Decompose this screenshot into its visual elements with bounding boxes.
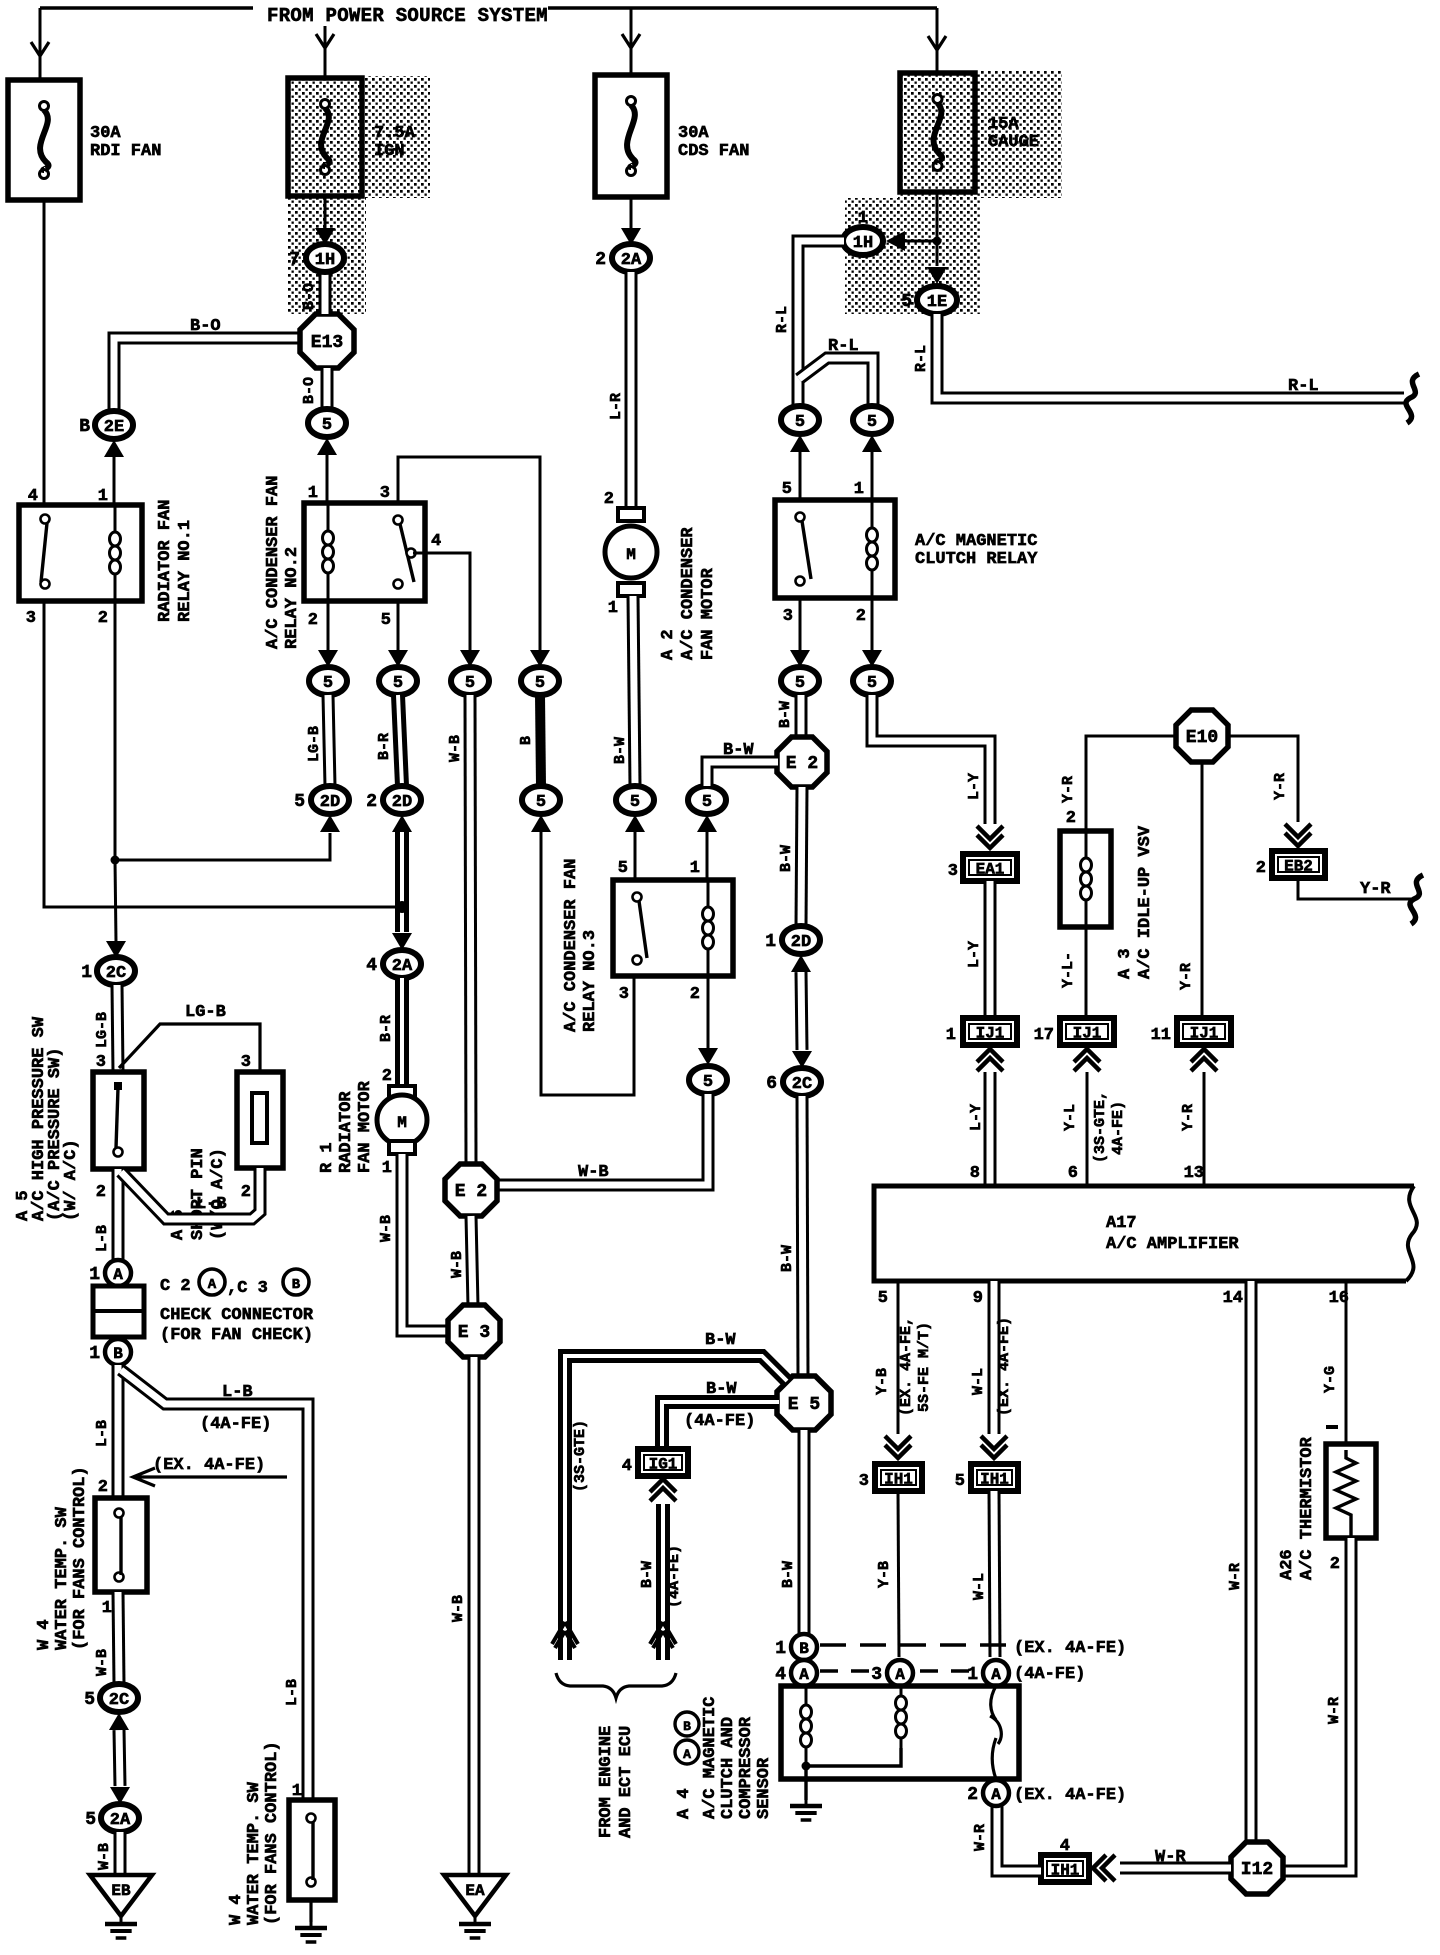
svg-text:LG-B: LG-B <box>185 1003 226 1022</box>
fuse 15A GAUGE <box>900 73 975 192</box>
svg-text:(4A-FE): (4A-FE) <box>1014 1665 1085 1684</box>
svg-text:B-R: B-R <box>376 733 393 760</box>
circled A check label <box>199 1269 225 1295</box>
svg-text:2E: 2E <box>104 418 124 437</box>
svg-text:(FOR FANS CONTROL): (FOR FANS CONTROL) <box>71 1466 90 1650</box>
svg-text:(3S-GTE): (3S-GTE) <box>572 1420 589 1492</box>
svg-text:B-W: B-W <box>706 1380 737 1399</box>
coil in relay2 <box>323 503 334 601</box>
arrow into 2E <box>104 440 124 457</box>
relay box A/C condenser fan relay no.3 <box>613 880 733 976</box>
svg-text:W 4: W 4 <box>227 1894 246 1925</box>
svg-text:E 5: E 5 <box>788 1395 820 1415</box>
svg-text:1: 1 <box>382 1159 392 1178</box>
junction connector I12 <box>1231 1842 1283 1894</box>
svg-text:5: 5 <box>294 792 305 812</box>
svg-text:2D: 2D <box>320 793 340 812</box>
ground symbol EB <box>105 1916 137 1938</box>
wire LG-B <box>328 695 330 786</box>
junction B-R and relay1 feed <box>396 901 408 913</box>
arrow into 1H <box>315 228 335 245</box>
svg-text:(4A-FE): (4A-FE) <box>684 1412 755 1431</box>
junction fuse4 tap to 1H <box>933 237 942 246</box>
pivot contact relay2 pin4 <box>407 549 416 558</box>
box A4 compressor clutch and sensor <box>781 1686 1019 1779</box>
wire relay2 pin4 to oval <box>413 553 470 650</box>
arrow into oval pin4 path <box>460 650 480 667</box>
connector 2E <box>79 411 133 439</box>
connector 2D switch side <box>366 786 421 814</box>
arrow into oval above relay3 pin1 <box>697 815 717 832</box>
connector 5 clutch relay pin1 top <box>853 406 891 434</box>
svg-text:E 3: E 3 <box>458 1323 490 1343</box>
svg-text:RELAY NO.3: RELAY NO.3 <box>581 930 600 1032</box>
svg-text:(4A-FE): (4A-FE) <box>200 1415 271 1434</box>
break symbol Y-R wire end <box>1410 875 1423 924</box>
svg-text:W-B: W-B <box>578 1163 609 1182</box>
arrow into oval below pin2 <box>862 650 882 667</box>
junction connector E5 <box>777 1376 831 1430</box>
svg-text:4: 4 <box>622 1457 632 1476</box>
wire relay3 pin2 down <box>707 976 710 1048</box>
svg-text:R-L: R-L <box>913 345 930 372</box>
svg-text:CLUTCH AND: CLUTCH AND <box>719 1717 738 1819</box>
svg-text:5: 5 <box>381 611 391 630</box>
svg-text:IGN: IGN <box>374 142 405 161</box>
wire loop oval to relay3 pin3 <box>541 832 634 1095</box>
switch box W4 water temp sw no1 <box>95 1498 147 1592</box>
terminal A check connector <box>89 1260 131 1286</box>
wire L-B A6 branch <box>121 1168 260 1219</box>
svg-text:AND ECT ECU: AND ECT ECU <box>617 1726 636 1838</box>
svg-text:B-W: B-W <box>780 1561 797 1588</box>
svg-text:A/C MAGNETIC: A/C MAGNETIC <box>701 1697 720 1819</box>
svg-text:2: 2 <box>604 490 614 509</box>
switch in clutch relay <box>796 513 812 586</box>
arrow into oval pin1 <box>862 435 882 452</box>
relay box A/C magnetic clutch relay <box>775 500 895 598</box>
svg-text:COMPRESSOR: COMPRESSOR <box>737 1716 756 1819</box>
arrow chevron into IH1 pin3 <box>885 1436 911 1458</box>
wire W-B W4 to 2C <box>118 1592 119 1684</box>
svg-text:5: 5 <box>867 413 877 432</box>
svg-text:2C: 2C <box>109 1691 129 1710</box>
wire ig1 tail <box>656 1612 670 1660</box>
arrow into 2A <box>621 228 641 245</box>
wire W-B relay2 pin4 column <box>470 695 471 1164</box>
svg-text:1: 1 <box>690 859 700 878</box>
connector IH1 pin5 <box>955 1464 1018 1491</box>
svg-text:5: 5 <box>630 793 640 812</box>
svg-text:1: 1 <box>967 1665 978 1685</box>
svg-text:(EX. 4A-FE,: (EX. 4A-FE, <box>898 1317 915 1416</box>
wire EB2 to break <box>1298 878 1412 899</box>
wire 2A to EB <box>114 1832 127 1874</box>
svg-text:W-L: W-L <box>970 1368 987 1395</box>
wire 2C to 2A bottom <box>119 1730 120 1786</box>
svg-text:30A: 30A <box>90 124 121 143</box>
junction connector E10 <box>1176 710 1228 762</box>
svg-text:W-R: W-R <box>1155 1848 1186 1867</box>
svg-text:B-W: B-W <box>777 701 794 728</box>
arrow feed fuse4 <box>928 36 946 50</box>
svg-text:L-B: L-B <box>94 1420 111 1447</box>
svg-text:1: 1 <box>608 599 618 618</box>
svg-text:1: 1 <box>102 1599 112 1618</box>
svg-text:W-B: W-B <box>450 1595 467 1622</box>
svg-text:L-B: L-B <box>94 1225 111 1252</box>
svg-text:R-L: R-L <box>1288 377 1319 396</box>
relay box radiator fan relay no.1 <box>19 505 142 601</box>
svg-text:W-L: W-L <box>971 1573 988 1600</box>
svg-text:A/C CONDENSER FAN: A/C CONDENSER FAN <box>264 476 283 649</box>
svg-text:W-R: W-R <box>1227 1563 1244 1590</box>
svg-text:IH1: IH1 <box>1051 1862 1080 1880</box>
terminal B compressor <box>775 1634 817 1660</box>
svg-text:5: 5 <box>618 859 628 878</box>
svg-text:R-L: R-L <box>774 306 791 333</box>
wire L-B circle B down <box>112 1365 125 1498</box>
wire fuse2 to 1H <box>324 196 327 228</box>
svg-text:A/C AMPLIFIER: A/C AMPLIFIER <box>1106 1235 1239 1254</box>
svg-text:8: 8 <box>970 1164 980 1183</box>
minus sign thermistor <box>1326 1425 1338 1429</box>
arrow chevron into EB2 <box>1285 824 1311 846</box>
svg-text:2A: 2A <box>621 251 642 270</box>
svg-text:2C: 2C <box>106 964 126 983</box>
svg-text:B-W: B-W <box>612 737 629 764</box>
svg-text:FAN MOTOR: FAN MOTOR <box>699 567 718 660</box>
svg-text:A: A <box>991 1666 1001 1684</box>
wire E10 left to A3 <box>1086 736 1176 831</box>
svg-text:R 1: R 1 <box>318 1142 337 1173</box>
arrow into oval below relay3 pin2 <box>698 1048 718 1065</box>
coil in radiator fan relay no.1 <box>110 505 121 601</box>
wire clutch relay pin3 down <box>799 598 802 650</box>
svg-text:30A: 30A <box>678 124 709 143</box>
wire B-W A2 motor to oval <box>633 596 635 786</box>
svg-text:A: A <box>683 1747 691 1762</box>
wire relay2 pin3 top loop <box>398 457 540 650</box>
svg-text:M: M <box>397 1114 407 1132</box>
wire B-R 2A to motor <box>395 978 409 1086</box>
wire R-L 1H to clutch relay pin5 <box>798 241 844 406</box>
arrow end 3S-GTE wire <box>552 1622 578 1648</box>
wire power source rail right <box>548 6 937 9</box>
svg-text:L-B: L-B <box>284 1679 301 1706</box>
junction relay1 coil node <box>111 856 120 865</box>
junction compressor ground node <box>802 1762 811 1771</box>
wire W-R thermistor to I12 <box>1283 1538 1351 1871</box>
svg-text:B-W: B-W <box>705 1331 736 1350</box>
dashed line EX 4A-FE from B <box>820 1643 1008 1646</box>
coil in relay3 <box>703 880 714 976</box>
wire B-W clutch pin3 oval to E2r <box>795 695 808 737</box>
svg-text:EA1: EA1 <box>976 861 1005 879</box>
svg-text:FAN MOTOR: FAN MOTOR <box>356 1080 375 1173</box>
svg-text:Y-L: Y-L <box>1062 1104 1079 1131</box>
arrow chevron below IG1 <box>650 1479 676 1501</box>
svg-text:E 2: E 2 <box>786 754 818 774</box>
arrow chevron below IJ1 pin11 <box>1191 1049 1217 1071</box>
svg-text:Y-R: Y-R <box>1360 880 1391 899</box>
svg-text:A: A <box>113 1266 123 1284</box>
wire L-Y IJ1 to A17 pin8 <box>984 1072 997 1186</box>
connector IJ1 pin17 <box>1034 1018 1114 1045</box>
stipple shading around 7.5A IGN fuse <box>286 76 430 198</box>
svg-text:A: A <box>208 1277 217 1293</box>
svg-text:A26: A26 <box>1278 1549 1297 1580</box>
wire IJ1 pin11 to A17 pin13 <box>1203 1072 1206 1186</box>
svg-text:1H: 1H <box>853 234 873 253</box>
terminal A compressor pin1 <box>967 1660 1009 1686</box>
svg-text:Y-L-: Y-L- <box>1060 952 1077 988</box>
junction connector E2 right <box>777 737 827 787</box>
svg-text:A/C IDLE-UP VSV: A/C IDLE-UP VSV <box>1136 825 1155 979</box>
connector 5 below clutch pin3 <box>781 667 819 695</box>
svg-text:2C: 2C <box>792 1075 812 1094</box>
ground triangle EB <box>90 1875 152 1916</box>
svg-text:5: 5 <box>323 674 333 693</box>
connector 5 below clutch pin2 <box>853 667 891 695</box>
terminal A compressor pin2 <box>967 1780 1009 1806</box>
svg-text:3: 3 <box>241 1053 251 1072</box>
wire fuse4 feed <box>936 8 939 73</box>
wire oval to relay3 pin1 <box>706 832 709 880</box>
arrow into oval 5 below E13 <box>317 438 337 455</box>
svg-text:Y-B: Y-B <box>874 1368 891 1395</box>
svg-text:1H: 1H <box>315 251 335 270</box>
svg-text:2A: 2A <box>392 957 413 976</box>
svg-text:A/C CONDENSER FAN: A/C CONDENSER FAN <box>562 859 581 1032</box>
arrow into oval pin3 path <box>530 650 550 667</box>
svg-text:E10: E10 <box>1186 728 1218 748</box>
arrow into 2A bottom left <box>110 1787 130 1804</box>
switch in radiator fan relay no.1 <box>41 515 50 589</box>
svg-text:LG-B: LG-B <box>306 726 323 762</box>
wire L-Y EA1 to IJ1 <box>984 881 997 1018</box>
box check connector <box>93 1286 144 1337</box>
svg-text:2: 2 <box>308 611 318 630</box>
wire E10 right to EB2 <box>1228 736 1298 822</box>
connector 5 relay2 pin4 <box>451 667 489 695</box>
wire relay2 pin5 down <box>397 601 400 650</box>
svg-text:A/C THERMISTOR: A/C THERMISTOR <box>1298 1436 1317 1580</box>
svg-text:(EX. 4A-FE): (EX. 4A-FE) <box>153 1456 265 1475</box>
svg-text:E13: E13 <box>311 333 343 353</box>
stipple shading around 15A GAUGE fuse <box>898 70 1062 198</box>
short pin bar in A6 <box>252 1093 267 1143</box>
wire relay1 pin3 down <box>44 601 402 907</box>
wire B-R relay2 pin5 to 2D <box>398 695 402 786</box>
arrow feed fuse3 <box>622 34 640 48</box>
svg-text:4: 4 <box>366 956 377 976</box>
solenoid box A3 idle-up VSV <box>1060 831 1111 927</box>
ground symbol W4 no2 <box>295 1920 327 1942</box>
svg-text:Y-R: Y-R <box>1180 1104 1197 1131</box>
svg-text:(EX. 4A-FE): (EX. 4A-FE) <box>996 1317 1013 1416</box>
wire Y-G A17 pin16 to thermistor <box>1345 1281 1348 1444</box>
wire R-L 1E down and right <box>937 314 1404 398</box>
arrow into oval pin5 <box>790 435 810 452</box>
fuse 7.5A IGN <box>288 78 362 196</box>
svg-text:9: 9 <box>973 1289 983 1308</box>
wire compressor ground stem <box>804 1766 807 1800</box>
svg-text:W-R: W-R <box>972 1824 989 1851</box>
wire B-O E13 to 2E <box>114 338 302 411</box>
wire B-W E2r to 2D <box>801 787 802 926</box>
wire B-W E2r left to oval <box>707 762 778 786</box>
svg-text:5: 5 <box>867 674 877 693</box>
svg-text:A: A <box>895 1666 905 1684</box>
svg-text:(FOR FANS CONTROL): (FOR FANS CONTROL) <box>263 1741 282 1925</box>
wire oval to clutch relay pin5 <box>799 452 802 500</box>
svg-text:RADIATOR: RADIATOR <box>337 1091 356 1173</box>
svg-text:A: A <box>991 1786 1001 1804</box>
switch box A5 high pressure switch <box>93 1072 144 1169</box>
svg-text:5: 5 <box>536 793 546 812</box>
arrow into 1H right side <box>886 231 905 251</box>
svg-text:B-W: B-W <box>779 1245 796 1272</box>
svg-text:W-B: W-B <box>449 1251 466 1278</box>
svg-text:2: 2 <box>366 792 377 812</box>
wire Y-B A17 pin5 to IH1 <box>897 1281 900 1434</box>
svg-text:B-W: B-W <box>723 741 754 760</box>
svg-text:L-Y: L-Y <box>966 773 983 800</box>
wire L-R 2A to motor A2 <box>625 272 638 508</box>
svg-text:13: 13 <box>1184 1164 1204 1183</box>
svg-text:RADIATOR FAN: RADIATOR FAN <box>156 500 175 622</box>
svg-text:W-B: W-B <box>94 1649 111 1676</box>
arrow into 2D coil side <box>320 815 340 832</box>
svg-text:Y-G: Y-G <box>1322 1366 1339 1393</box>
wire fuse4 to 1E <box>936 192 939 266</box>
junction relay1 line and B-R line <box>398 903 407 912</box>
svg-text:5: 5 <box>84 1690 95 1710</box>
svg-text:CHECK CONNECTOR: CHECK CONNECTOR <box>160 1306 314 1325</box>
motor A2 A/C condenser fan motor <box>605 508 657 596</box>
svg-text:5: 5 <box>85 1810 96 1830</box>
junction connector E2 center <box>445 1164 497 1216</box>
svg-text:IH1: IH1 <box>884 1471 913 1489</box>
svg-text:B: B <box>683 1719 691 1734</box>
svg-text:A/C CONDENSER: A/C CONDENSER <box>679 527 698 660</box>
svg-text:2: 2 <box>1330 1555 1340 1574</box>
wire B-W 2D to 2C <box>801 972 802 1050</box>
svg-text:IH1: IH1 <box>980 1471 1009 1489</box>
svg-text:I12: I12 <box>1241 1860 1273 1880</box>
arrow chevron into IH1 pin4 <box>1093 1855 1115 1881</box>
svg-text:3: 3 <box>380 484 390 503</box>
svg-text:1: 1 <box>308 484 318 503</box>
wire relay2 pin2 down <box>327 601 330 650</box>
svg-text:1: 1 <box>81 963 92 983</box>
svg-text:4: 4 <box>431 532 441 551</box>
svg-text:W-R: W-R <box>1326 1697 1343 1724</box>
wire fuse3 to 2A <box>630 197 633 228</box>
break symbol R-L wire end <box>1406 374 1419 423</box>
switch sensor in compressor <box>990 1686 1001 1779</box>
connector 2C center column <box>766 1068 821 1096</box>
wire IJ1 pin17 to A17 pin6 <box>1086 1072 1089 1186</box>
connector 5 below relay3 pin2 <box>689 1066 727 1094</box>
connector 1E <box>901 286 957 314</box>
svg-text:17: 17 <box>1034 1026 1054 1045</box>
svg-text:L-Y: L-Y <box>968 1104 985 1131</box>
connector EB2 <box>1256 851 1325 878</box>
svg-text:B-O: B-O <box>301 283 318 310</box>
svg-text:RELAY NO.2: RELAY NO.2 <box>283 547 302 649</box>
connector 2C pressure switch <box>81 957 135 985</box>
circled B in label <box>675 1712 699 1736</box>
wire 2E to relay1 pin1 <box>113 457 116 505</box>
svg-text:5: 5 <box>703 1073 713 1092</box>
svg-text:2D: 2D <box>791 933 811 952</box>
svg-text:4: 4 <box>1060 1837 1070 1856</box>
svg-text:B: B <box>292 1277 301 1293</box>
svg-text:LG-B: LG-B <box>94 1012 111 1048</box>
wire fuse2 feed <box>324 26 327 78</box>
svg-text:3: 3 <box>871 1665 882 1685</box>
svg-text:1: 1 <box>775 1639 786 1659</box>
wire LG-B branch to A6 <box>119 1024 260 1072</box>
connector 5 above relay3 loop <box>522 786 560 814</box>
svg-text:7.5A: 7.5A <box>374 124 416 143</box>
wire B-W 2C to E5 <box>802 1096 803 1377</box>
resistor box A26 A/C thermistor <box>1326 1444 1376 1538</box>
svg-text:B-O: B-O <box>301 377 318 404</box>
svg-text:5: 5 <box>878 1289 888 1308</box>
svg-text:A/C MAGNETIC: A/C MAGNETIC <box>915 532 1037 551</box>
wire clutch relay pin2 down <box>871 598 874 650</box>
coil 2 in compressor <box>896 1686 907 1748</box>
svg-text:RELAY NO.1: RELAY NO.1 <box>176 520 195 622</box>
svg-text:4: 4 <box>775 1665 786 1685</box>
svg-text:14: 14 <box>1223 1289 1243 1308</box>
svg-text:L-B: L-B <box>222 1383 253 1402</box>
svg-text:5: 5 <box>782 480 792 499</box>
wire fuse1 to relay1 pin4 <box>43 200 46 505</box>
svg-text:IJ1: IJ1 <box>1073 1025 1102 1043</box>
svg-text:15A: 15A <box>988 115 1019 134</box>
wire L-B branch to W4 no2 <box>121 1370 308 1800</box>
wire fuse3 feed <box>630 8 633 75</box>
connector 2A radiator motor <box>366 950 421 978</box>
wire oval5 to relay2 pin1 <box>326 455 329 503</box>
switch in W4 no2 <box>307 1814 316 1887</box>
junction connector E13 <box>300 314 354 368</box>
svg-text:W-B: W-B <box>447 735 464 762</box>
svg-text:2: 2 <box>1066 809 1076 828</box>
wire W-L IH1 to compressor A <box>994 1491 995 1657</box>
svg-text:A 2: A 2 <box>659 629 678 660</box>
switch in relay3 <box>633 893 648 965</box>
fuse 30A CDS FAN <box>595 75 667 197</box>
wire A3 to IJ1 pin17 <box>1085 927 1088 1018</box>
connector 2D coil side <box>294 786 349 814</box>
svg-text:CDS FAN: CDS FAN <box>678 142 749 161</box>
svg-text:W-B: W-B <box>378 1215 395 1242</box>
svg-text:EB: EB <box>111 1882 131 1900</box>
svg-text:Y-R: Y-R <box>1272 773 1289 800</box>
svg-text:1: 1 <box>946 1026 956 1045</box>
svg-text:6: 6 <box>766 1074 777 1094</box>
svg-text:IJ1: IJ1 <box>976 1025 1005 1043</box>
svg-text:1: 1 <box>89 1344 100 1364</box>
wire W-L A17 pin9 to IH1 <box>988 1281 1001 1434</box>
svg-text:C 2: C 2 <box>160 1277 191 1296</box>
connector EA1 <box>948 854 1017 881</box>
